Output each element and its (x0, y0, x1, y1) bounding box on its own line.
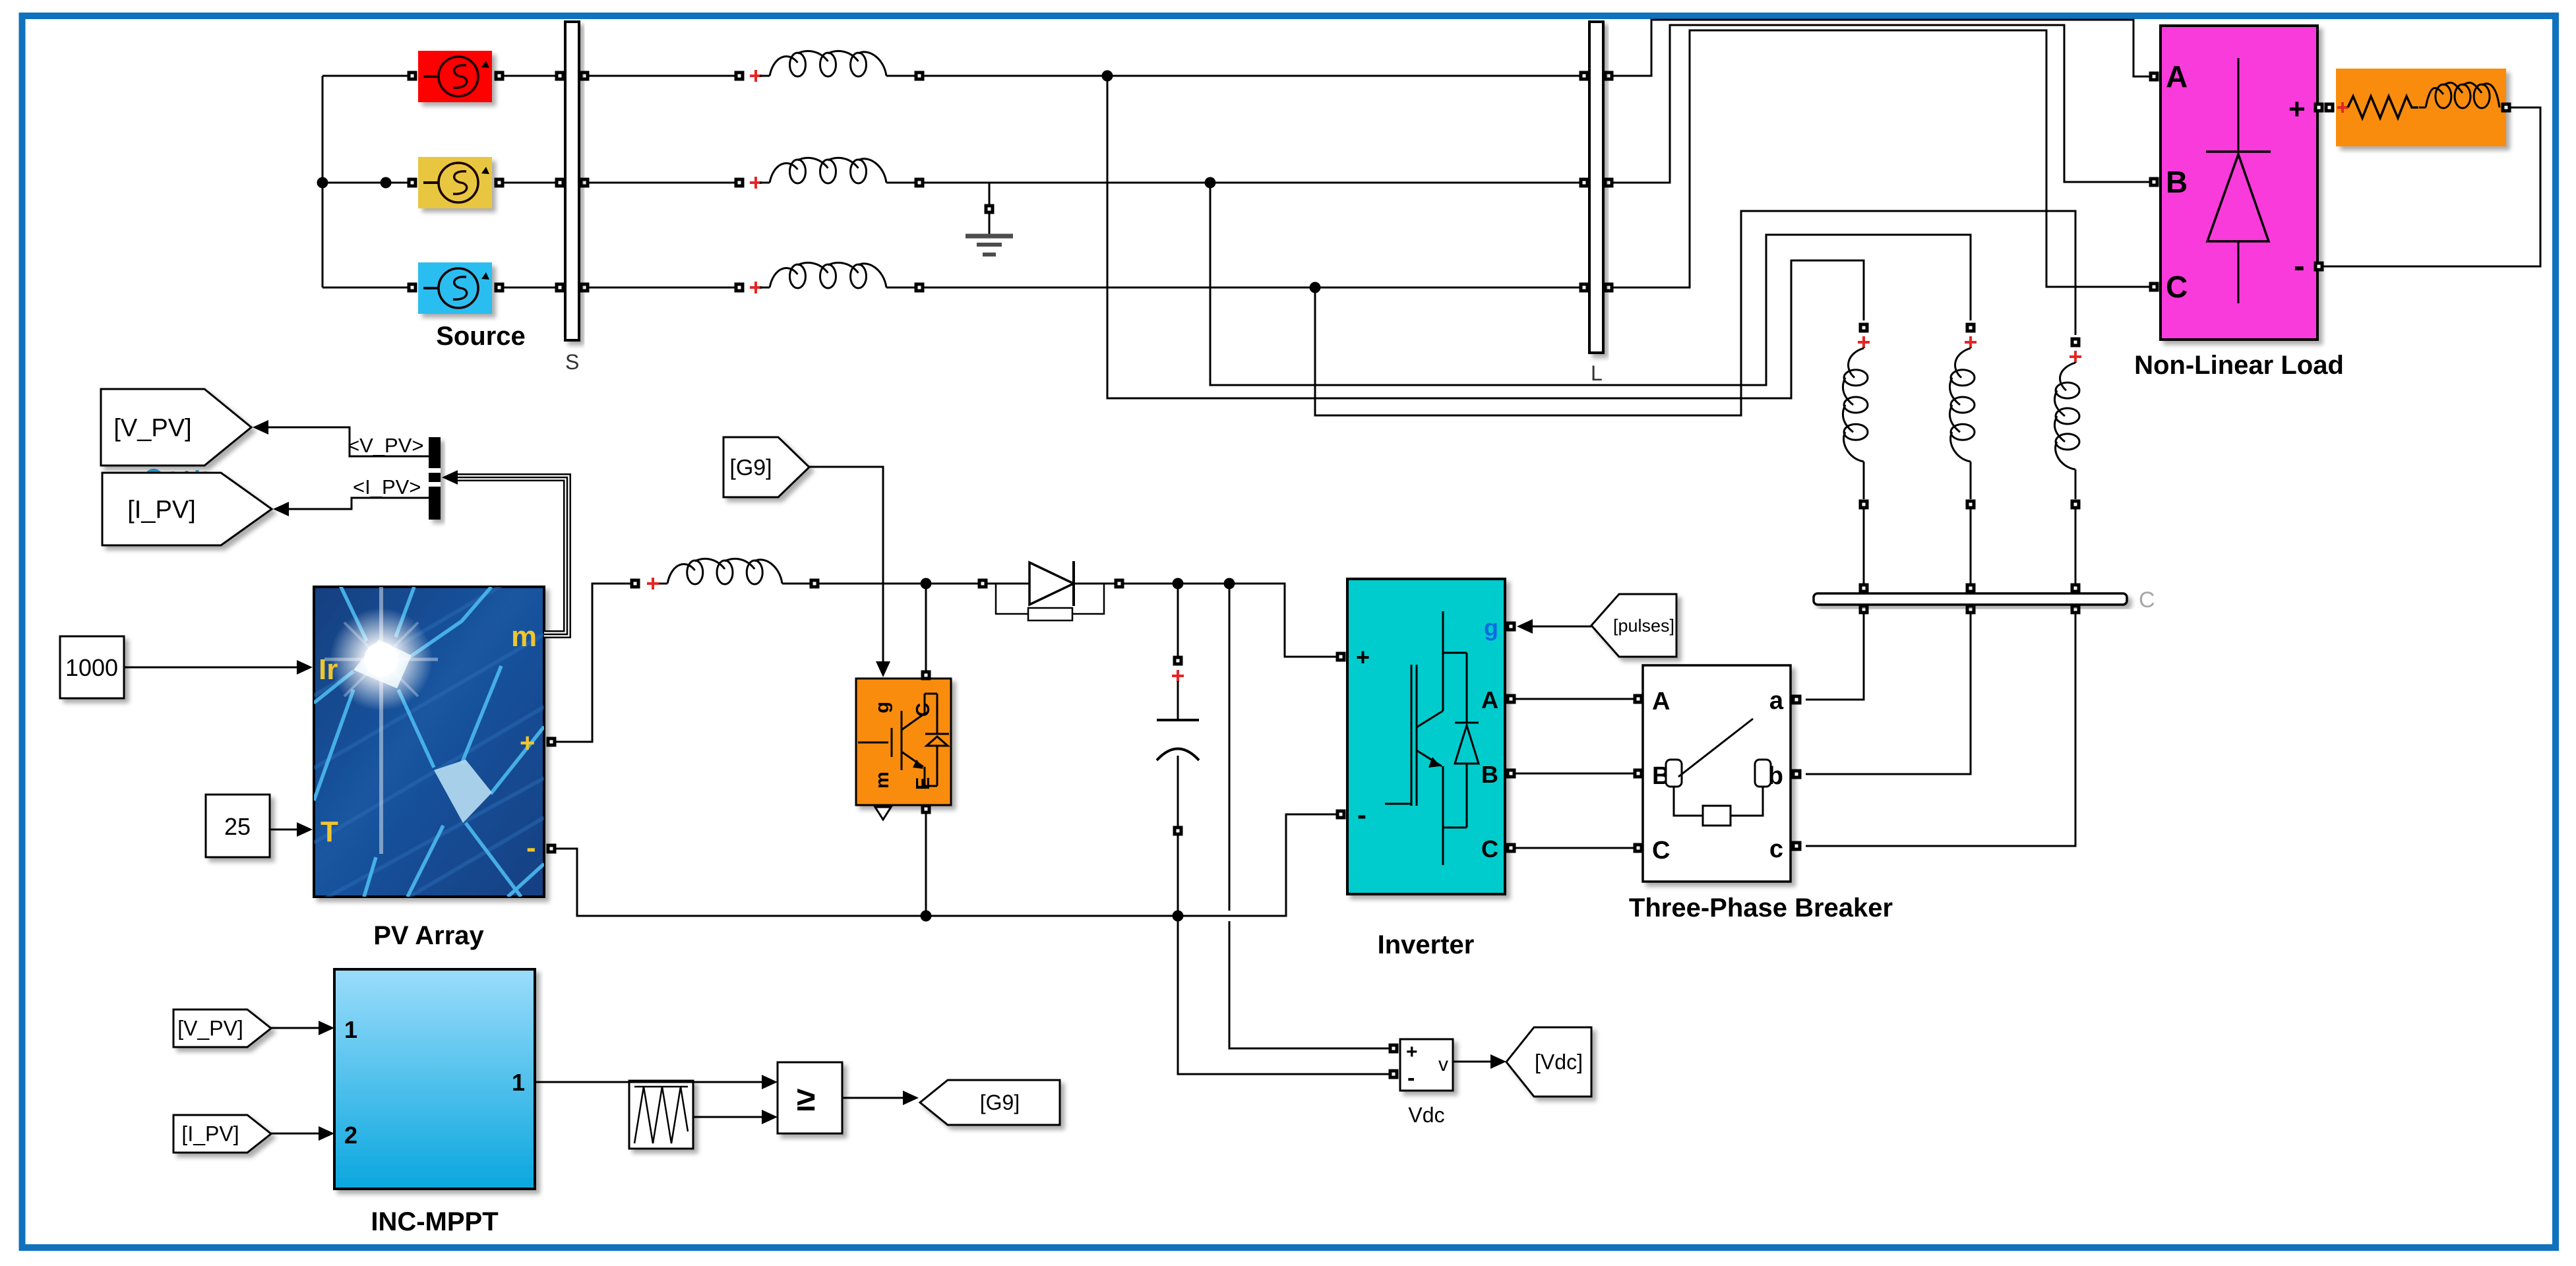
wire: cap - to DC- rail (1177, 835, 1179, 916)
port: NLL - (2314, 262, 2324, 272)
port: inverter g (1506, 622, 1516, 632)
port: Vdc + (1389, 1044, 1399, 1054)
block: Non-Linear Load (2161, 26, 2317, 340)
wire: selector I_PV output (288, 498, 429, 509)
svg-text:Non-Linear Load: Non-Linear Load (2134, 351, 2344, 380)
wire: phase C down-run to load coil 3 (1315, 211, 2075, 415)
node: capacitor + junction (1173, 578, 1184, 589)
wire: inverter A to breaker A (1516, 698, 1634, 700)
port: source right terminal y=277 (495, 178, 505, 188)
polarity + mark y=115 (750, 70, 762, 82)
polarity + mark y=436 (750, 282, 762, 293)
inductor load coil 3 (2075, 362, 2077, 363)
hidden blue label (partially covered) (148, 470, 205, 474)
block: Vdc voltage measurement (1400, 1039, 1453, 1091)
svg-text:-: - (1407, 1066, 1415, 1091)
wire: sawtooth to relational op in2 (693, 1116, 763, 1118)
wire: RL branch to NLL - (2323, 107, 2540, 266)
port: diode cathode (1115, 579, 1124, 589)
port: capacitor + (1173, 656, 1183, 666)
polarity + mark coil 2 (1965, 336, 1977, 348)
polarity + mark coil 1 (1858, 336, 1870, 348)
goto tag [I_PV] (102, 473, 272, 545)
svg-text:[I_PV]: [I_PV] (181, 1122, 239, 1146)
port: NLL A (2149, 72, 2159, 82)
diode snubber branch (996, 584, 1028, 614)
svg-text:+: + (520, 729, 535, 758)
wire: source to bus S y=115 (504, 75, 560, 77)
wire: selector V_PV output (267, 427, 429, 456)
port: bus C top 2 (1966, 584, 1976, 593)
port: load coil 2 bottom (1966, 500, 1976, 510)
port: bus C top 1 (1859, 584, 1869, 593)
port: RL branch right y=277 (915, 178, 925, 188)
port: inverter + (1336, 652, 1346, 662)
constant block 1000 (irradiance) (60, 636, 124, 698)
port: G9 E (bottom) (921, 804, 931, 814)
svg-text:-: - (2294, 247, 2305, 284)
svg-text:<I_PV>: <I_PV> (353, 475, 421, 498)
svg-text:-: - (1357, 799, 1366, 830)
svg-text:g: g (1484, 614, 1498, 641)
goto tag [V_PV] (101, 389, 251, 466)
port: bus L left y=436 (1579, 283, 1589, 293)
port: bus L right y=436 (1604, 283, 1614, 293)
port: load coil 2 top (1966, 323, 1976, 333)
wire: relational op to [G9] (842, 1097, 904, 1099)
wire: bus S to RL branch y=115 (589, 75, 735, 77)
port: PV + (547, 737, 557, 747)
wire: RL branch to bus L y=436 (924, 287, 1585, 289)
wire: Vdc + sense (1229, 584, 1231, 911)
AC voltage source Vc (cyan) (418, 262, 492, 314)
node: phase B tap junction (1205, 177, 1216, 189)
port: bus L left y=115 (1579, 71, 1589, 81)
svg-text:Three-Phase Breaker: Three-Phase Breaker (1629, 893, 1893, 922)
node: Vdc + junction (1224, 578, 1235, 589)
wire: phase B down-run to load coil 2 (1210, 183, 1971, 385)
svg-text:A: A (1652, 688, 1670, 715)
svg-text:C: C (1652, 837, 1670, 864)
svg-text:C: C (1481, 835, 1498, 862)
port: source left terminal y=436 (408, 283, 417, 293)
port: inverter A (1506, 694, 1516, 704)
svg-text:[V_PV]: [V_PV] (113, 414, 191, 442)
wire: PV + up to DC link (556, 584, 630, 742)
port: bus S right y=115 (580, 71, 590, 81)
wire: V_PV to MPPT in 1 (271, 1027, 320, 1029)
port: RL branch right y=115 (915, 71, 925, 81)
svg-text:1000: 1000 (65, 654, 118, 681)
wire: G9 gate signal (809, 467, 883, 663)
svg-text:S: S (565, 350, 579, 374)
block: repeating sequence (sawtooth) (629, 1081, 693, 1149)
svg-text:1: 1 (512, 1069, 525, 1096)
svg-text:g: g (872, 702, 893, 713)
IGBT bridge symbol inside inverter (1385, 611, 1479, 865)
port: boost inductor right (810, 579, 820, 589)
svg-text:C: C (2139, 588, 2155, 613)
wire: G9 E to DC- rail (925, 814, 927, 916)
svg-text:<V_PV>: <V_PV> (348, 434, 423, 457)
port: bus S right y=436 (580, 283, 590, 293)
port: diode anode (978, 579, 988, 589)
port: inverter C (1506, 843, 1516, 853)
ground branch wire (989, 183, 991, 204)
wire: coil 1 to bus C (1863, 509, 1865, 584)
svg-text:c: c (1769, 835, 1783, 863)
svg-text:+: + (1356, 644, 1370, 671)
inductor RL branch phase y=436 (760, 287, 770, 289)
block: series RLC branch (orange) (2336, 69, 2506, 146)
port: bus C bottom 2 (1966, 605, 1976, 615)
wire: source to bus S y=277 (504, 182, 560, 184)
svg-text:B: B (2166, 165, 2188, 199)
svg-text:25: 25 (224, 813, 251, 840)
node: capacitor - junction on DC- rail (1173, 911, 1184, 922)
port: RL branch left y=277 (735, 178, 745, 188)
port: bus L right y=277 (1604, 178, 1614, 188)
port: Vdc - (1389, 1070, 1399, 1079)
port: bus C bottom 1 (1859, 605, 1869, 615)
port: RL branch right (2501, 103, 2511, 113)
node: neutral junction (317, 177, 328, 189)
[G9] from tag (gate signal) (723, 437, 809, 497)
svg-text:[I_PV]: [I_PV] (127, 496, 196, 524)
port: breaker B (1634, 769, 1643, 779)
port: breaker c (1792, 841, 1802, 851)
wire: MPPT out to relational op in1 (535, 1081, 763, 1083)
svg-text:PV Array: PV Array (373, 921, 484, 950)
port: PV - (547, 844, 557, 854)
block: IGBT G9 (orange) (856, 678, 951, 805)
wire: 1000 to PV Ir (124, 667, 298, 669)
port: boost inductor left (630, 579, 640, 589)
svg-text:≥: ≥ (797, 1080, 816, 1118)
bus bar S (565, 22, 579, 340)
port: load coil 1 bottom (1859, 500, 1869, 510)
wire: Vdc output (1453, 1061, 1492, 1063)
port: breaker C (1634, 843, 1643, 853)
from tag [pulses] (1591, 594, 1676, 657)
svg-text:Inverter: Inverter (1378, 930, 1475, 959)
port: bus S left y=277 (555, 178, 565, 188)
from tag [I_PV] (bottom) (173, 1115, 271, 1153)
svg-text:[Vdc]: [Vdc] (1535, 1050, 1583, 1074)
wire: source neutral vertical (322, 76, 324, 287)
wire: bus S to RL branch y=436 (589, 287, 735, 289)
svg-text:+: + (2288, 93, 2306, 125)
port: bus L left y=277 (1579, 178, 1589, 188)
port: NLL B (2149, 177, 2159, 187)
inductor RL branch phase y=115 (760, 75, 770, 77)
bus bar L (1589, 22, 1603, 353)
svg-text:E: E (913, 777, 934, 790)
svg-text:+: + (1406, 1041, 1418, 1063)
polarity + boost inductor (647, 578, 659, 589)
svg-text:m: m (511, 620, 537, 653)
wire: diode to inverter + (1124, 584, 1336, 657)
node: G9 collector junction (921, 578, 932, 589)
diode icon inside NLL (2238, 58, 2240, 150)
wire: PV m measurement bus to selector (triple line) (458, 477, 567, 634)
port: load coil 3 top (2071, 338, 2081, 347)
svg-text:Ir: Ir (319, 653, 338, 686)
wire: coil 3 to bus C (2075, 509, 2077, 584)
port: bus S left y=436 (555, 283, 565, 293)
block: PV Array (photo) (314, 587, 544, 897)
wire: I_PV to MPPT in 2 (271, 1133, 320, 1135)
ground symbol (966, 234, 1013, 239)
port: bus S right y=277 (580, 178, 590, 188)
node: junction on phase B (381, 177, 392, 189)
svg-text:1: 1 (344, 1016, 357, 1043)
G9 m port triangle (875, 807, 891, 820)
block: relational operator >= (778, 1062, 842, 1133)
svg-text:[V_PV]: [V_PV] (177, 1017, 243, 1040)
svg-text:A: A (2166, 59, 2188, 94)
wire: cap + branch (1177, 584, 1179, 656)
AC voltage source Va (red) (418, 51, 492, 102)
goto tag [Vdc] (1506, 1027, 1591, 1097)
block: Inverter (teal) (1347, 579, 1505, 894)
inductor load coil 2 (1970, 347, 1972, 348)
wire: junction to G9 C (925, 588, 927, 671)
svg-text:[G9]: [G9] (980, 1091, 1020, 1114)
port: source left terminal y=277 (408, 178, 417, 188)
wire: bus S to RL branch y=277 (589, 182, 735, 184)
wire: phase B from neutral to source Vb (322, 182, 408, 184)
port: source right terminal y=115 (495, 71, 505, 81)
bus selector bar (429, 437, 441, 520)
svg-text:[pulses]: [pulses] (1613, 616, 1674, 636)
port: bus C top 3 (2071, 584, 2081, 593)
wire: DC- rail (PV - to inverter -) (556, 814, 1336, 916)
polarity + mark coil 3 (2070, 351, 2081, 363)
port: inverter B (1506, 769, 1516, 779)
port: RL branch left (2325, 103, 2335, 113)
polarity + mark y=277 (750, 177, 762, 189)
wire: 25 to PV T (270, 829, 298, 831)
svg-text:2: 2 (344, 1122, 357, 1149)
from tag [V_PV] (bottom) (173, 1010, 271, 1047)
wire: bus L phase B to NLL port B (1613, 25, 2149, 183)
inductor in RL branch (2426, 88, 2443, 107)
wire: Vdc - sense (1178, 916, 1389, 1074)
breaker switch symbol (1666, 760, 1682, 787)
svg-text:m: m (872, 771, 893, 789)
svg-text:Source: Source (436, 322, 526, 351)
wire: bus L phase C to NLL port C (1613, 30, 2149, 287)
svg-text:C: C (2166, 270, 2188, 304)
port: RL branch left y=436 (735, 283, 745, 293)
wire: phase A from neutral to source Va (322, 75, 408, 77)
wire: coil 2 to bus C (1970, 509, 1972, 584)
svg-text:B: B (1481, 761, 1498, 788)
svg-text:a: a (1769, 687, 1784, 715)
port: breaker a (1792, 695, 1802, 705)
svg-text:L: L (1591, 361, 1603, 385)
wire: bus C to breaker a (1806, 614, 1864, 700)
port: bus S left y=115 (555, 71, 565, 81)
wire: phase C from neutral to source Vc (322, 287, 408, 289)
svg-text:Vdc: Vdc (1408, 1103, 1444, 1127)
port: G9 C (top) (921, 671, 931, 680)
port: capacitor - (1173, 826, 1183, 836)
inductor: boost L (659, 583, 667, 585)
wire: source to bus S y=436 (504, 287, 560, 289)
wire: bus L phase A to NLL port A (1613, 20, 2149, 76)
wire: boost L to diode (819, 583, 978, 585)
resistor zigzag (2348, 96, 2418, 118)
port: source left terminal y=115 (408, 71, 417, 81)
wire: inverter C to breaker C (1516, 847, 1634, 849)
svg-text:INC-MPPT: INC-MPPT (371, 1207, 498, 1236)
port: RL branch left y=115 (735, 71, 745, 81)
wire: pulses to inverter g (1531, 626, 1591, 628)
polarity + mark RL branch (2337, 102, 2348, 113)
inductor load coil 1 (1863, 347, 1865, 348)
wire: phase A down-run to load coil 1 (1107, 76, 1864, 398)
diode D (boost) (987, 583, 1029, 585)
block: Three-Phase Breaker (1643, 665, 1791, 882)
svg-text:[G9]: [G9] (729, 455, 772, 480)
constant block 25 (temperature) (206, 795, 270, 857)
port: breaker b (1792, 769, 1802, 779)
port: breaker A (1634, 694, 1643, 704)
port: ground connection (985, 204, 995, 214)
port: RL branch right y=436 (915, 283, 925, 293)
polarity + capacitor (1172, 670, 1184, 682)
svg-text:A: A (1481, 686, 1498, 713)
capacitor C (DC link) (1177, 681, 1179, 720)
port: bus L right y=115 (1604, 71, 1614, 81)
svg-text:v: v (1438, 1054, 1448, 1075)
node: phase A tap junction (1102, 71, 1113, 82)
node: phase C tap junction (1310, 282, 1321, 293)
port: load coil 3 bottom (2071, 500, 2081, 510)
bus bar C (1814, 593, 2127, 605)
IGBT symbol G9 (858, 694, 949, 786)
port: NLL + (2314, 103, 2324, 113)
port: load coil 1 top (1859, 323, 1869, 333)
wire: bus C to breaker b (1806, 614, 1971, 774)
port: NLL C (2149, 282, 2159, 292)
wire: RL branch to bus L y=277 (924, 182, 1585, 184)
svg-text:T: T (321, 816, 338, 848)
wire: inverter B to breaker B (1516, 773, 1634, 775)
wire: bus C to breaker c (1806, 614, 2075, 846)
AC voltage source Vb (yellow) (418, 157, 492, 208)
inductor RL branch phase y=277 (760, 182, 770, 184)
block: INC-MPPT (334, 969, 535, 1189)
port: source right terminal y=436 (495, 283, 505, 293)
node: G9 E junction on DC- rail (921, 911, 932, 922)
port: inverter - (1336, 810, 1346, 820)
port: bus C bottom 3 (2071, 605, 2081, 615)
wire: RL branch to bus L y=115 (924, 75, 1585, 77)
svg-text:-: - (526, 831, 536, 864)
goto tag [G9] (bottom) (920, 1080, 1060, 1125)
